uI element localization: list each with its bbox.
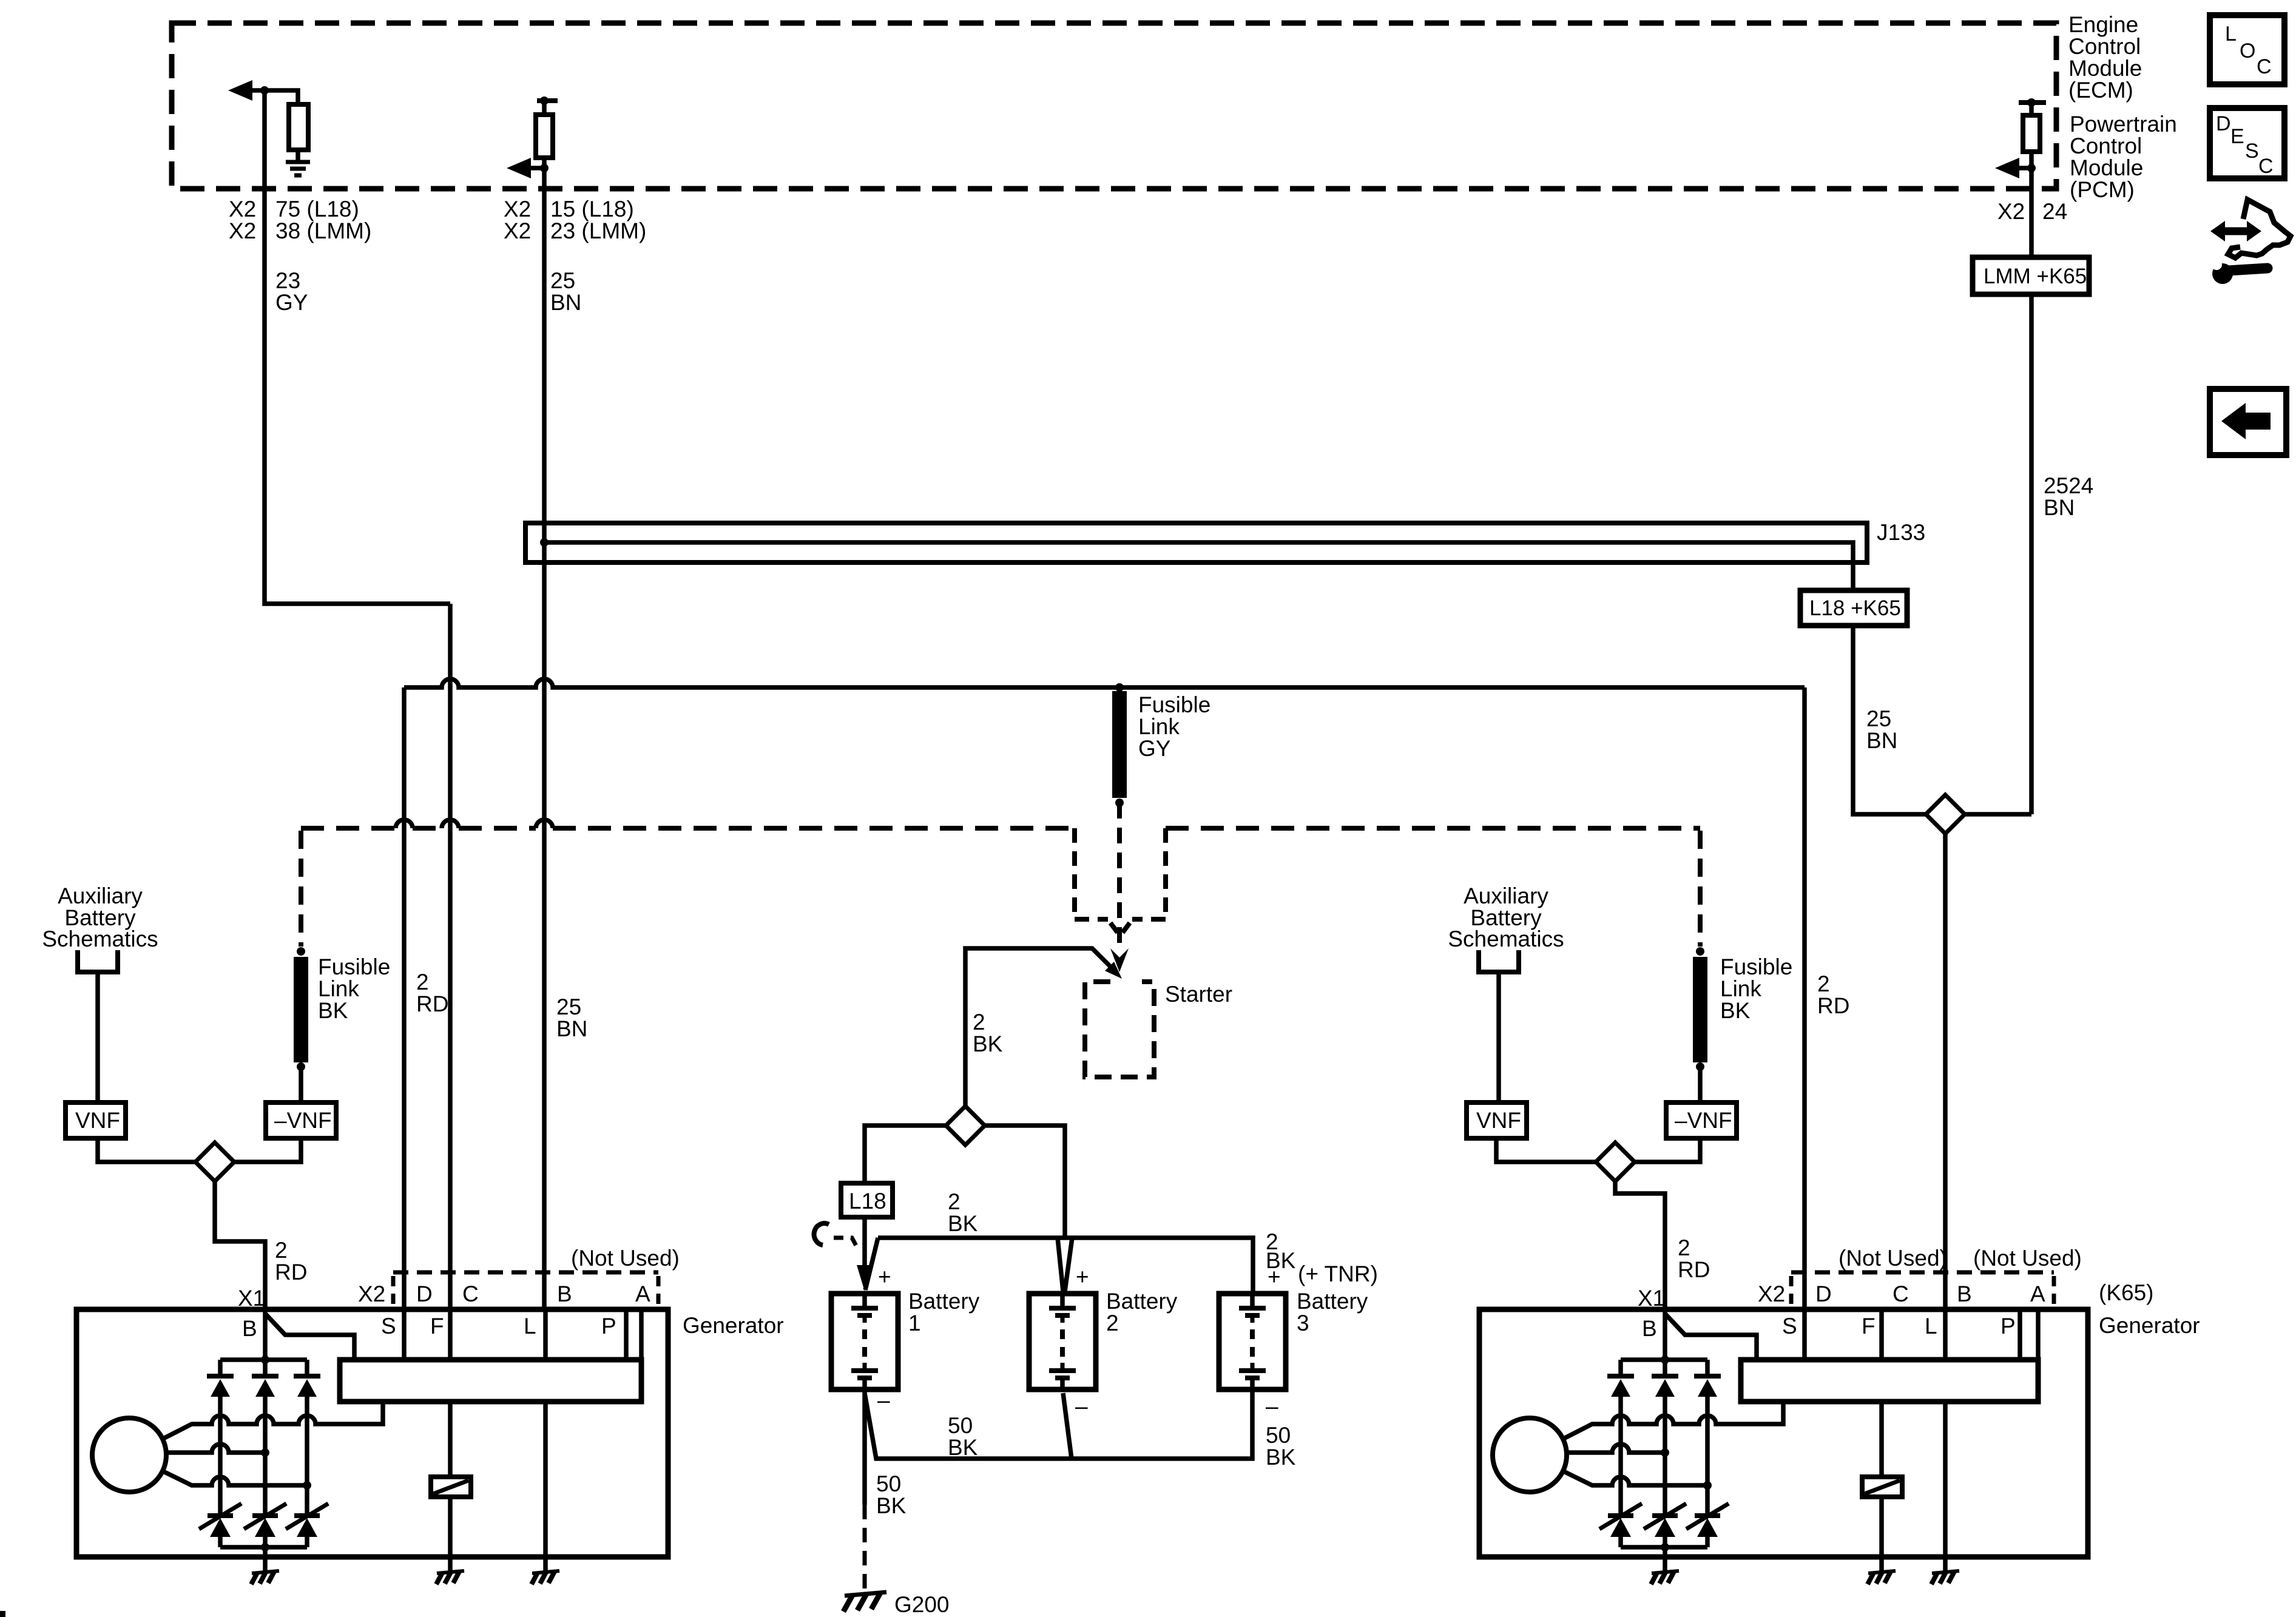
wire VNF to diamond (right): [1496, 1138, 1596, 1162]
svg-text:C: C: [2257, 55, 2272, 78]
svg-text:75 (L18): 75 (L18): [275, 197, 359, 221]
node fusible BK top (right): [1696, 947, 1704, 956]
svg-text:X2: X2: [504, 218, 531, 243]
harness clip symbol: [814, 1223, 829, 1245]
terminal labels left gen: [242, 1314, 616, 1341]
dashed wire to starter: [1117, 803, 1122, 947]
svg-text:Fusible: Fusible: [1138, 692, 1210, 717]
wire resistor to ground: [295, 147, 300, 161]
svg-text:25: 25: [556, 994, 581, 1019]
svg-text:X2: X2: [1758, 1281, 1785, 1306]
node fusible BK top (left): [297, 947, 305, 956]
wire 2 RD to right generator X1: [1615, 1181, 1665, 1309]
pin label X2 24 (PCM): [1997, 199, 2067, 224]
wire fusible BK to -VNF (left): [299, 1067, 303, 1102]
svg-text:2: 2: [1678, 1235, 1690, 1260]
wire diamond to battery 2: [985, 1126, 1065, 1238]
connector box LMM +K65: [1973, 257, 2089, 294]
regulator pin stubs (left gen): [404, 1309, 641, 1360]
connector box L18: [841, 1183, 893, 1217]
svg-text:S: S: [2245, 140, 2259, 163]
node bottom bus junction (left gen): [261, 1543, 269, 1551]
svg-text:(+ TNR): (+ TNR): [1298, 1261, 1378, 1286]
node phase B junction (right gen): [1661, 1448, 1669, 1457]
wire 2 RD to left generator X1: [215, 1181, 265, 1309]
dashed bus hops: [396, 820, 553, 828]
splice diamond aux (left): [195, 1143, 234, 1181]
svg-text:B: B: [1957, 1281, 1972, 1306]
ground (left gen B): [252, 1571, 279, 1573]
fusible link BK element (left): [294, 957, 308, 1062]
battery 1 feed arrowhead: [857, 1265, 873, 1291]
svg-text:23 (LMM): 23 (LMM): [550, 218, 646, 243]
wire F (C pin) down to left generator: [448, 604, 453, 1309]
svg-text:Link: Link: [318, 976, 359, 1001]
fusible link GY element: [1112, 691, 1127, 798]
svg-text:BK: BK: [948, 1435, 978, 1460]
battery B3 box: [1219, 1294, 1286, 1389]
label 2 RD (right S wire): [1817, 971, 1849, 1018]
node fusible link GY bottom: [1115, 798, 1124, 807]
wire B to rectifier bus (right gen): [1663, 1309, 1667, 1360]
rectifier top bus (right gen): [1621, 1357, 1707, 1362]
svg-text:L: L: [2225, 22, 2237, 46]
svg-text:+: +: [1268, 1264, 1281, 1289]
svg-text:Generator: Generator: [2099, 1313, 2200, 1338]
indicator element (left gen F): [448, 1402, 453, 1477]
svg-text:Module: Module: [2070, 155, 2143, 180]
terminal labels right gen: [1642, 1314, 2016, 1341]
wire ECM arrow to resistor: [249, 90, 298, 105]
rectifier diode right-3: [1694, 1360, 1721, 1516]
svg-text:L: L: [524, 1314, 536, 1338]
node: ECM left pin junction: [260, 86, 269, 95]
battery B1 box: [831, 1294, 898, 1389]
svg-text:Control: Control: [2070, 133, 2142, 158]
pin label X2 15/23 (middle): [504, 197, 646, 243]
starter dashed-wire arrowhead: [1110, 948, 1129, 972]
svg-text:Starter: Starter: [1165, 982, 1232, 1007]
svg-text:A: A: [2030, 1281, 2045, 1306]
wire 25 BN from ECM right pin down through J133: [542, 168, 547, 1309]
stator phase A wire (right gen): [1562, 1402, 1783, 1439]
sidebar LOC button: [2210, 15, 2284, 84]
avalanche diode right-1a: [1599, 1504, 1642, 1547]
svg-text:–: –: [1266, 1394, 1278, 1419]
svg-text:(Not Used): (Not Used): [1973, 1246, 2082, 1271]
rectifier diode left-2: [252, 1360, 279, 1516]
svg-text:2: 2: [1106, 1311, 1119, 1335]
PCM internal arrow: [1995, 158, 2019, 178]
label 50 BK (battery 3): [1266, 1423, 1296, 1470]
svg-text:RD: RD: [275, 1260, 307, 1284]
box VNF (left): [66, 1102, 126, 1138]
dashed wire to fusible link BK (right): [1698, 831, 1703, 947]
wire 2524 BN from PCM: [2029, 168, 2034, 814]
svg-text:A: A: [635, 1281, 650, 1306]
svg-text:F: F: [1862, 1314, 1876, 1338]
svg-text:Auxiliary: Auxiliary: [1464, 883, 1548, 908]
right generator box: [1479, 1309, 2088, 1557]
node B/bus junction (left gen): [261, 1355, 269, 1364]
svg-text:B: B: [557, 1281, 572, 1306]
svg-text:BK: BK: [1266, 1445, 1296, 1470]
svg-text:BK: BK: [876, 1493, 907, 1518]
svg-text:(Not Used): (Not Used): [571, 1246, 680, 1271]
svg-text:–: –: [877, 1388, 890, 1413]
ground (right gen B): [1652, 1571, 1679, 1573]
wire 25 BN from L18+K65: [1853, 626, 1926, 814]
svg-text:L: L: [1925, 1314, 1937, 1338]
label 2 RD (right X1): [1678, 1235, 1710, 1282]
wire 2 BK battery link: [865, 1238, 1253, 1292]
rectifier diode right-2: [1652, 1360, 1678, 1516]
label 50 BK (mid): [948, 1413, 978, 1460]
svg-text:RD: RD: [1817, 993, 1849, 1018]
fusible link BK element (right): [1693, 957, 1707, 1062]
svg-text:BN: BN: [1866, 728, 1897, 753]
avalanche diode right-3a: [1686, 1504, 1729, 1547]
wire S (D pin) down to left generator: [402, 687, 407, 1309]
dashed auxiliary bus right segment: [1166, 826, 1700, 831]
svg-text:50: 50: [948, 1413, 973, 1438]
svg-text:X2: X2: [358, 1281, 385, 1306]
node fusible BK bottom (right): [1696, 1062, 1704, 1071]
rectifier diode right-1: [1607, 1360, 1634, 1516]
svg-text:S: S: [1782, 1314, 1797, 1338]
wire 23 GY from ECM left pin: [265, 90, 450, 604]
stator phase C wire (right gen): [1562, 1471, 1707, 1485]
svg-text:15 (L18): 15 (L18): [550, 197, 634, 221]
ground (right gen F): [1868, 1571, 1896, 1573]
ground (right gen L): [1932, 1571, 1959, 1573]
label 2 RD (left X1): [275, 1238, 307, 1284]
label 2 BK (battery link): [948, 1189, 978, 1236]
svg-text:3: 3: [1297, 1311, 1309, 1335]
svg-text:2: 2: [948, 1189, 961, 1214]
dashed wire to fusible link BK (left): [299, 831, 303, 947]
svg-text:2: 2: [416, 970, 429, 994]
wire battery feed bus: [404, 679, 1805, 687]
battery B2 label: [1106, 1289, 1178, 1335]
svg-text:2: 2: [1817, 971, 1830, 996]
connector labels right gen: [1638, 1281, 2045, 1311]
svg-text:P: P: [601, 1314, 616, 1338]
node J133 tap: [540, 538, 549, 547]
wire VNF to diamond (left): [98, 1138, 195, 1162]
aux bracket (left): [78, 950, 118, 972]
svg-text:50: 50: [1266, 1423, 1291, 1448]
wire F to ground (left gen): [448, 1497, 453, 1571]
label Fusible Link BK (right): [1720, 954, 1792, 1023]
wire -VNF to diamond (right): [1635, 1138, 1700, 1162]
wire bracket to VNF: [95, 972, 100, 1102]
sidebar back-arrow button: [2210, 389, 2286, 455]
battery B3 label: [1297, 1289, 1368, 1335]
svg-text:BN: BN: [550, 290, 581, 315]
wire diamond down to right generator L: [1943, 834, 1948, 1309]
svg-text:RD: RD: [1678, 1257, 1710, 1282]
svg-text:+: +: [1076, 1264, 1089, 1289]
svg-text:P: P: [2001, 1314, 2016, 1338]
svg-text:Generator: Generator: [683, 1313, 784, 1338]
label Fusible Link BK (left): [318, 954, 390, 1023]
svg-text:Fusible: Fusible: [1720, 954, 1792, 979]
svg-text:GY: GY: [1138, 736, 1170, 761]
svg-text:24: 24: [2042, 199, 2067, 224]
svg-text:RD: RD: [416, 991, 448, 1016]
svg-text:25: 25: [1866, 706, 1891, 731]
svg-text:X2: X2: [1997, 199, 2025, 224]
voltage regulator (left gen): [340, 1360, 641, 1402]
sidebar DESC button: [2210, 108, 2284, 178]
label 2 BK (starter): [973, 1010, 1003, 1056]
wire bar to resistor: [542, 101, 547, 115]
ECM internal arrow (right): [507, 158, 531, 178]
B+ sense wire (left gen): [265, 1314, 354, 1360]
B+ sense wire (right gen): [1665, 1314, 1757, 1360]
svg-text:E: E: [2230, 125, 2244, 148]
svg-text:38 (LMM): 38 (LMM): [275, 218, 371, 243]
svg-text:2: 2: [973, 1010, 985, 1035]
stator phase A wire (left gen): [162, 1402, 383, 1439]
dashed wire to G200: [863, 1505, 867, 1590]
svg-text:(PCM): (PCM): [2070, 177, 2135, 202]
wire 50 BK to ground: [862, 1389, 867, 1505]
ground (left gen L): [532, 1571, 559, 1573]
rectifier bottom bus (right gen): [1621, 1545, 1707, 1550]
starter dashed box: [1085, 982, 1154, 1077]
svg-text:(ECM): (ECM): [2068, 78, 2133, 103]
PCM module text: [2070, 112, 2177, 202]
wire resistor to junction: [542, 158, 547, 168]
svg-text:BN: BN: [2044, 495, 2075, 520]
svg-text:Schematics: Schematics: [1448, 927, 1564, 951]
wire bracket to VNF (right): [1496, 972, 1501, 1102]
svg-text:X2: X2: [229, 218, 256, 243]
wire 2 BK starter feed: [965, 948, 1113, 1106]
label 2524 BN: [2044, 473, 2093, 520]
wire resistor to junction: [2029, 152, 2034, 168]
label Auxiliary Battery Schematics (left): [42, 883, 158, 951]
wire L18 to battery 1: [862, 1217, 867, 1269]
svg-text:2524: 2524: [2044, 473, 2093, 498]
svg-text:X1: X1: [1638, 1286, 1665, 1311]
ECM internal bar (right pin): [537, 98, 558, 103]
dashed funnel right: [1123, 828, 1166, 933]
J133 internal bus wire: [544, 542, 1853, 590]
rectifier diode left-3: [294, 1360, 320, 1516]
label Fusible Link GY: [1138, 692, 1210, 761]
svg-text:BK: BK: [973, 1031, 1003, 1056]
svg-text:BK: BK: [948, 1211, 978, 1236]
node: ECM right pin junction: [540, 164, 549, 172]
label 50 BK (ground leg): [876, 1471, 907, 1518]
left generator box: [76, 1309, 668, 1557]
svg-text:O: O: [2240, 39, 2255, 62]
indicator element (right gen F): [1879, 1402, 1884, 1477]
svg-text:–VNF: –VNF: [1675, 1108, 1732, 1133]
svg-text:L18: L18: [849, 1189, 886, 1214]
ECM module text: [2068, 12, 2142, 103]
svg-text:2: 2: [275, 1238, 288, 1263]
splice diamond aux (right): [1596, 1143, 1635, 1181]
svg-text:C: C: [462, 1281, 479, 1306]
box -VNF (left): [266, 1102, 336, 1138]
regulator pin stubs (right gen): [1805, 1309, 2038, 1360]
aux bracket (right): [1479, 950, 1519, 972]
svg-text:VNF: VNF: [75, 1108, 120, 1133]
svg-text:X2: X2: [229, 197, 256, 221]
svg-text:X2: X2: [504, 197, 531, 221]
wire 50 BK battery negative bus: [865, 1389, 1252, 1459]
stator winding circle (left gen): [92, 1418, 166, 1492]
wire B to case ground (left gen): [263, 1547, 268, 1571]
wire L to ground (right gen): [1943, 1402, 1948, 1571]
node bottom bus junction (right gen): [1661, 1543, 1669, 1551]
svg-text:Control: Control: [2068, 34, 2141, 59]
stator winding circle (right gen): [1493, 1418, 1567, 1492]
battery B1 label: [908, 1289, 980, 1335]
svg-text:D: D: [416, 1281, 433, 1306]
svg-text:VNF: VNF: [1476, 1108, 1521, 1133]
box -VNF (right): [1666, 1102, 1737, 1138]
stator phase B wire (left gen): [166, 1444, 265, 1453]
svg-text:X1: X1: [238, 1286, 265, 1311]
svg-text:B: B: [242, 1316, 257, 1341]
splice diamond battery feed: [865, 1126, 946, 1183]
starter feed arrowhead: [1105, 962, 1122, 979]
battery B2 box: [1029, 1294, 1096, 1389]
svg-text:BN: BN: [556, 1016, 587, 1041]
avalanche diode right-2a: [1644, 1504, 1686, 1547]
wire B to rectifier bus (left gen): [263, 1309, 268, 1360]
avalanche diode left-3a: [286, 1504, 328, 1547]
wire B to case ground (right gen): [1663, 1547, 1667, 1571]
sidebar jump/tools icon: [2210, 200, 2291, 284]
svg-text:LMM +K65: LMM +K65: [1984, 265, 2087, 288]
svg-text:Module: Module: [2068, 56, 2142, 81]
svg-text:B: B: [1642, 1316, 1657, 1341]
svg-text:25: 25: [550, 268, 575, 293]
PCM internal bar: [2019, 100, 2046, 105]
node fusible link GY top: [1115, 683, 1124, 692]
box VNF (right): [1467, 1102, 1527, 1138]
connector box L18 +K65: [1800, 590, 1907, 626]
label 2 RD (left S wire): [416, 970, 448, 1016]
resistor PCM: [2023, 115, 2040, 152]
wire fusible BK to -VNF (right): [1698, 1067, 1703, 1102]
svg-text:Battery: Battery: [1297, 1289, 1368, 1314]
svg-text:Link: Link: [1720, 976, 1761, 1001]
svg-text:Powertrain: Powertrain: [2070, 112, 2177, 137]
node: PCM pin top: [2027, 98, 2036, 107]
label 25 BN (left L wire, lower): [556, 994, 587, 1041]
svg-text:(K65): (K65): [2099, 1280, 2153, 1305]
avalanche diode left-1a: [199, 1504, 241, 1547]
svg-text:C: C: [1893, 1281, 1909, 1306]
ground G200: [845, 1592, 886, 1596]
svg-text:BK: BK: [1720, 998, 1751, 1023]
svg-text:C: C: [2258, 155, 2274, 178]
connector labels left gen: [238, 1281, 650, 1311]
rectifier bottom bus (left gen): [220, 1545, 307, 1550]
label (K65) Generator (right): [2099, 1280, 2200, 1338]
stator phase B wire (right gen): [1567, 1444, 1665, 1453]
svg-text:BK: BK: [318, 998, 348, 1023]
label 23 GY: [275, 268, 308, 315]
svg-text:–VNF: –VNF: [274, 1108, 332, 1133]
page corner mark: [0, 1611, 5, 1617]
node fusible BK bottom (left): [297, 1062, 305, 1071]
rectifier diode left-1: [207, 1360, 234, 1516]
pin label X2 75/38 (left): [229, 197, 371, 243]
svg-text:S: S: [381, 1314, 396, 1338]
svg-text:–: –: [1075, 1394, 1088, 1419]
X2 connector dashed bracket (left gen): [393, 1271, 658, 1275]
resistor ECM right: [536, 115, 553, 158]
rectifier top bus (left gen): [220, 1357, 307, 1362]
svg-text:D: D: [1815, 1281, 1832, 1306]
wire S down to right generator: [1802, 687, 1807, 1309]
svg-text:G200: G200: [894, 1592, 950, 1617]
junction block J133: [525, 523, 1867, 562]
svg-text:D: D: [2216, 112, 2231, 135]
stator phase C wire (left gen): [162, 1471, 307, 1485]
wire F to ground (right gen): [1879, 1497, 1884, 1571]
svg-text:Schematics: Schematics: [42, 927, 158, 951]
svg-text:Battery: Battery: [1106, 1289, 1178, 1314]
svg-text:J133: J133: [1877, 520, 1925, 545]
splice diamond (right feed): [1926, 795, 1965, 834]
label 25 BN (right): [1866, 706, 1897, 753]
node: PCM pin junction: [2027, 164, 2036, 172]
svg-text:GY: GY: [275, 290, 308, 315]
label 25 BN: [550, 268, 581, 315]
dashed auxiliary bus left segment: [301, 826, 1075, 831]
svg-text:Engine: Engine: [2068, 12, 2138, 37]
svg-text:F: F: [430, 1314, 444, 1338]
wire L to ground (left gen): [543, 1402, 548, 1571]
dashed funnel left: [1075, 828, 1118, 933]
svg-text:Auxiliary: Auxiliary: [58, 883, 143, 908]
svg-text:23: 23: [275, 268, 300, 293]
wire bar to resistor: [2029, 103, 2034, 115]
X2 connector dashed bracket (right gen): [1791, 1271, 2054, 1275]
wire -VNF to diamond (left): [234, 1138, 301, 1162]
svg-text:Link: Link: [1138, 714, 1180, 739]
svg-text:(Not Used): (Not Used): [1838, 1246, 1947, 1271]
ground (left gen F): [437, 1571, 464, 1573]
label Auxiliary Battery Schematics (right): [1448, 883, 1564, 951]
svg-text:1: 1: [908, 1311, 921, 1335]
resistor ECM pull-down: [289, 104, 308, 150]
voltage regulator (right gen): [1741, 1360, 2038, 1402]
svg-text:Fusible: Fusible: [318, 954, 390, 979]
svg-text:50: 50: [876, 1471, 901, 1496]
node phase B junction (left gen): [261, 1448, 269, 1457]
svg-text:Battery: Battery: [908, 1289, 980, 1314]
svg-text:+: +: [878, 1264, 891, 1289]
node: ECM right pin top: [540, 96, 549, 105]
svg-text:L18 +K65: L18 +K65: [1809, 596, 1901, 620]
node B/bus junction (right gen): [1661, 1355, 1669, 1364]
ECM/PCM module dashed box: [172, 23, 2056, 189]
ECM internal arrow (left): [228, 80, 252, 101]
wire diamond to 2524 BN: [1965, 812, 2031, 817]
avalanche diode left-2a: [244, 1504, 286, 1547]
ground (ECM internal): [286, 162, 310, 175]
